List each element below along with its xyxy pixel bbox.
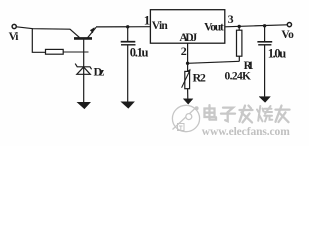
transistor base lead down bbox=[83, 40, 85, 75]
svg-text:www.elecfans.com: www.elecfans.com bbox=[202, 126, 290, 138]
svg-text:ADJ: ADJ bbox=[179, 32, 197, 44]
zener diode Dz triangle bbox=[77, 67, 91, 74]
resistor R2 top lead bbox=[187, 63, 189, 71]
svg-text:R2: R2 bbox=[193, 71, 206, 85]
svg-text:Vi: Vi bbox=[9, 31, 20, 43]
wire branch down to bias resistor bbox=[32, 29, 45, 53]
capacitor C2 lower lead bbox=[264, 45, 266, 97]
node junction ADJ bbox=[186, 62, 189, 65]
resistor R2 bottom lead bbox=[187, 89, 189, 99]
capacitor C2 plates bbox=[257, 41, 272, 43]
wire zener to ground bbox=[83, 74, 85, 102]
svg-text:0.24K: 0.24K bbox=[225, 70, 252, 82]
ground under C2 bbox=[259, 97, 270, 103]
wire ADJ down bbox=[187, 43, 189, 63]
svg-text:3: 3 bbox=[228, 12, 234, 26]
transistor Q1 collector diagonal bbox=[70, 29, 80, 37]
transistor Q1 emitter with arrow bbox=[87, 27, 96, 38]
regulator U1 box bbox=[150, 10, 224, 44]
svg-text:0.1u: 0.1u bbox=[130, 46, 149, 60]
resistor R1 (vertical box) bbox=[237, 30, 242, 56]
watermark logo circle bbox=[172, 105, 199, 131]
capacitor C1 0.1u lead bbox=[127, 27, 129, 41]
ground under C1 bbox=[121, 102, 134, 108]
svg-text:2: 2 bbox=[181, 44, 187, 58]
svg-text:1: 1 bbox=[144, 13, 151, 28]
node junction R1 top bbox=[238, 25, 241, 28]
zener diode Dz cathode bar bbox=[75, 64, 91, 70]
wire Vout to Vo bbox=[225, 25, 287, 27]
capacitor C2 1.0u top lead bbox=[264, 26, 266, 41]
resistor R2 (vertical box, adjustable) bbox=[185, 71, 190, 88]
watermark char 子 bbox=[221, 108, 235, 122]
terminal Vo bbox=[287, 23, 291, 27]
watermark char 友 bbox=[276, 106, 290, 123]
capacitor C1 plates bbox=[121, 41, 136, 43]
ground under R2 bbox=[183, 99, 193, 104]
wire Vi to transistor collector bbox=[17, 27, 71, 29]
watermark char 电 bbox=[205, 105, 217, 119]
watermark char 烧 bbox=[257, 106, 272, 122]
resistor bias (horizontal box) bbox=[46, 49, 64, 54]
watermark char 发 bbox=[240, 106, 253, 123]
transistor Q1 base bar bbox=[74, 37, 92, 40]
svg-text:1.0u: 1.0u bbox=[268, 46, 287, 60]
node junction 0.1u bbox=[126, 25, 129, 28]
watermark small char bbox=[178, 124, 185, 131]
wire emitter to IC pin1 bbox=[96, 26, 150, 28]
svg-text:Vin: Vin bbox=[152, 20, 169, 32]
ground under zener bbox=[77, 102, 90, 108]
resistor R1 top lead bbox=[238, 26, 240, 30]
svg-text:Vout: Vout bbox=[204, 22, 224, 34]
svg-text:Dz: Dz bbox=[94, 65, 105, 79]
node junction C2 top bbox=[263, 24, 266, 27]
svg-text:Vo: Vo bbox=[281, 29, 294, 41]
capacitor C1 lower lead bbox=[127, 45, 129, 102]
terminal Vi bbox=[12, 24, 16, 28]
resistor R2 adjust arrow bbox=[182, 70, 191, 88]
resistor R1 bottom lead bbox=[238, 56, 240, 61]
wire ADJ node to R1 bottom bbox=[188, 61, 240, 63]
wire resistor to base node bbox=[63, 51, 88, 53]
